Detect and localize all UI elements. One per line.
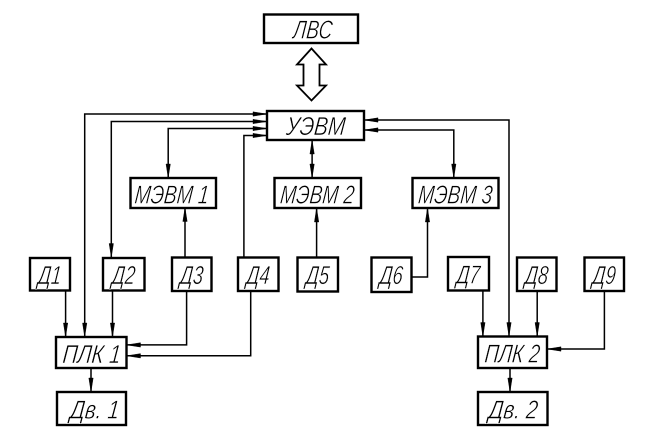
wire D5-MEVM2 [314, 208, 318, 258]
wire D7-PLC2 [481, 291, 485, 337]
wire D4-PLC1 [127, 291, 251, 358]
svg-text:УЭВМ: УЭВМ [284, 111, 347, 141]
bidirectional block arrow LVS-UEVM [297, 49, 326, 101]
svg-text:Д2: Д2 [109, 260, 138, 290]
block D5 (Д5) [298, 258, 339, 292]
block PLC2 (ПЛК 2) [478, 337, 547, 369]
wire D9-PLC2 [547, 291, 604, 351]
wire D8-PLC2 [535, 291, 539, 337]
block UEVM (УЭВМ) [267, 111, 364, 141]
block DV1 (Дв. 1) [57, 392, 126, 425]
wire UEVM-MEVM2 (bidirectional vertical) [310, 140, 314, 178]
block D6 (Д6) [372, 258, 412, 293]
svg-text:Д9: Д9 [589, 260, 617, 290]
block D4 (Д4) [238, 258, 279, 292]
wire D1-PLC1 [63, 291, 67, 338]
svg-text:МЭВМ 3: МЭВМ 3 [417, 179, 495, 209]
wire D2-PLC1 [110, 291, 114, 338]
block MEVM3 (МЭВМ 3) [413, 178, 499, 209]
block DV2 (Дв. 2) [478, 392, 548, 425]
svg-text:Д3: Д3 [177, 260, 206, 290]
svg-text:Д4: Д4 [243, 260, 271, 290]
svg-text:МЭВМ 1: МЭВМ 1 [133, 179, 210, 209]
svg-text:ПЛК 2: ПЛК 2 [483, 339, 542, 369]
wire UEVM-D2 (bidirectional) [109, 119, 267, 257]
svg-text:ЛВС: ЛВС [290, 14, 334, 44]
svg-text:Дв. 2: Дв. 2 [485, 395, 540, 425]
svg-text:Д8: Д8 [522, 260, 551, 290]
wire PLC2-DV2 [508, 368, 512, 392]
block D8 (Д8) [517, 258, 557, 292]
svg-text:Д7: Д7 [453, 259, 482, 289]
block D9 (Д9) [585, 258, 625, 292]
block MEVM2 (МЭВМ 2) [275, 178, 362, 209]
block D2 (Д2) [103, 258, 145, 291]
svg-text:МЭВМ 2: МЭВМ 2 [279, 179, 357, 209]
svg-text:Дв. 1: Дв. 1 [67, 395, 122, 425]
block D1 (Д1) [30, 258, 70, 291]
wire UEVM-PLC2 (bidirectional) [364, 118, 511, 337]
wire UEVM-MEVM1 (bidirectional) [166, 126, 267, 178]
wire D3-PLC1 [127, 291, 187, 347]
block LVS (ЛВС) [264, 14, 358, 44]
block D7 (Д7) [448, 257, 489, 291]
wire D6-MEVM3 [412, 208, 430, 277]
wire UEVM-PLC1 (bidirectional) [83, 112, 268, 337]
svg-text:Д5: Д5 [303, 260, 332, 290]
block MEVM1 (МЭВМ 1) [131, 178, 217, 209]
svg-text:ПЛК 1: ПЛК 1 [61, 339, 122, 369]
svg-text:Д6: Д6 [376, 260, 405, 290]
block D3 (Д3) [172, 258, 212, 292]
svg-text:Д1: Д1 [35, 260, 63, 290]
wire PLC1-DV1 [89, 368, 93, 392]
wire UEVM-MEVM3 (bidirectional) [364, 128, 456, 178]
wire D3-MEVM1 [183, 208, 187, 258]
wire D4-UEVM [244, 133, 267, 257]
block PLC1 (ПЛК 1) [56, 337, 127, 369]
